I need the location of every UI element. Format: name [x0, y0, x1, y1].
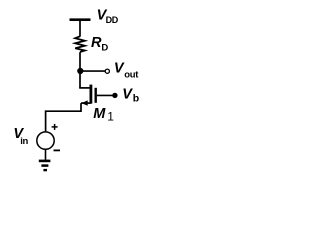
output terminal open circle — [105, 69, 109, 73]
transistor M1 gate bar — [94, 88, 96, 103]
node Vout junction dot — [77, 68, 83, 74]
svg-text:DD: DD — [106, 15, 119, 25]
label RD — [91, 35, 108, 53]
voltage source Vin circle — [37, 132, 54, 149]
svg-text:out: out — [124, 70, 139, 81]
wire resistor to drain — [79, 52, 81, 88]
svg-text:V: V — [122, 86, 133, 102]
wire VDD to resistor — [79, 20, 81, 37]
ground — [39, 161, 51, 170]
svg-text:b: b — [133, 93, 139, 105]
wire gate lead — [97, 94, 113, 96]
label Vb — [122, 86, 139, 104]
label Vin — [13, 126, 28, 147]
label M1 — [93, 106, 114, 123]
transistor M1 source lead — [81, 102, 91, 104]
svg-text:in: in — [20, 136, 28, 147]
label VDD — [97, 8, 119, 26]
wire node to output terminal — [80, 70, 105, 72]
wire source to input source — [46, 103, 81, 131]
svg-text:D: D — [101, 42, 108, 53]
plus sign of Vin — [52, 124, 58, 130]
transistor M1 source arrow — [81, 100, 87, 105]
node Vb gate dot — [112, 93, 117, 98]
resistor RD — [75, 36, 85, 52]
svg-text:M: M — [93, 106, 106, 122]
wire drain step — [79, 87, 90, 89]
svg-text:1: 1 — [107, 109, 114, 123]
wire Vin to ground — [45, 150, 47, 160]
power rail VDD bar — [70, 18, 91, 21]
minus sign of Vin — [54, 149, 61, 151]
svg-text:R: R — [91, 35, 102, 51]
label Vout — [114, 61, 139, 81]
transistor M1 channel bar — [90, 85, 93, 104]
